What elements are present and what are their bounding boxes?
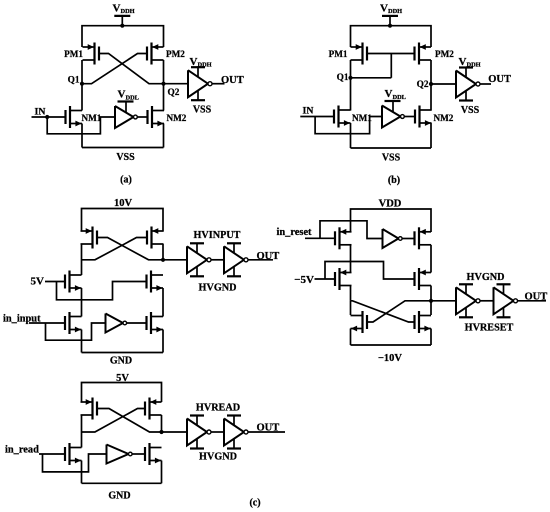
svg-text:OUT: OUT bbox=[257, 251, 280, 262]
svg-text:OUT: OUT bbox=[257, 422, 280, 433]
svg-text:in_reset: in_reset bbox=[277, 227, 313, 238]
svg-text:NM1: NM1 bbox=[352, 113, 372, 123]
svg-text:PM1: PM1 bbox=[64, 49, 83, 59]
svg-text:PM1: PM1 bbox=[329, 49, 348, 59]
svg-text:GND: GND bbox=[110, 355, 132, 366]
svg-text:Q1: Q1 bbox=[337, 73, 349, 83]
svg-text:GND: GND bbox=[108, 490, 130, 501]
svg-text:Q2: Q2 bbox=[417, 80, 429, 90]
svg-text:HVGND: HVGND bbox=[199, 452, 237, 463]
svg-text:VSS: VSS bbox=[382, 153, 401, 164]
svg-text:10V: 10V bbox=[114, 198, 133, 209]
svg-text:Q2: Q2 bbox=[168, 88, 180, 98]
svg-text:(b): (b) bbox=[388, 175, 400, 186]
svg-text:VSS: VSS bbox=[116, 152, 135, 163]
svg-text:5V: 5V bbox=[31, 275, 45, 287]
svg-text:in_read: in_read bbox=[5, 445, 39, 456]
svg-text:−5V: −5V bbox=[294, 274, 314, 286]
svg-text:NM1: NM1 bbox=[82, 113, 102, 123]
svg-text:IN: IN bbox=[35, 107, 46, 118]
svg-text:OUT: OUT bbox=[488, 74, 511, 85]
svg-text:5V: 5V bbox=[116, 373, 129, 384]
svg-text:PM2: PM2 bbox=[435, 49, 454, 59]
svg-text:−10V: −10V bbox=[378, 353, 402, 364]
svg-text:Q1: Q1 bbox=[68, 76, 80, 86]
svg-text:OUT: OUT bbox=[525, 291, 548, 302]
svg-text:VSS: VSS bbox=[193, 105, 212, 116]
svg-text:(c): (c) bbox=[249, 498, 260, 509]
svg-text:(a): (a) bbox=[120, 175, 132, 186]
svg-text:in_input: in_input bbox=[3, 314, 41, 325]
svg-text:NM2: NM2 bbox=[167, 113, 187, 123]
svg-text:HVRESET: HVRESET bbox=[465, 323, 514, 334]
svg-text:VDD: VDD bbox=[379, 199, 402, 210]
svg-text:PM2: PM2 bbox=[166, 49, 185, 59]
svg-text:HVINPUT: HVINPUT bbox=[194, 230, 241, 241]
svg-text:HVREAD: HVREAD bbox=[196, 402, 240, 413]
svg-text:IN: IN bbox=[303, 106, 314, 117]
svg-text:OUT: OUT bbox=[221, 75, 244, 86]
svg-text:NM2: NM2 bbox=[434, 113, 454, 123]
svg-text:VSS: VSS bbox=[461, 105, 480, 116]
svg-text:HVGND: HVGND bbox=[467, 272, 505, 283]
svg-text:HVGND: HVGND bbox=[199, 283, 237, 294]
